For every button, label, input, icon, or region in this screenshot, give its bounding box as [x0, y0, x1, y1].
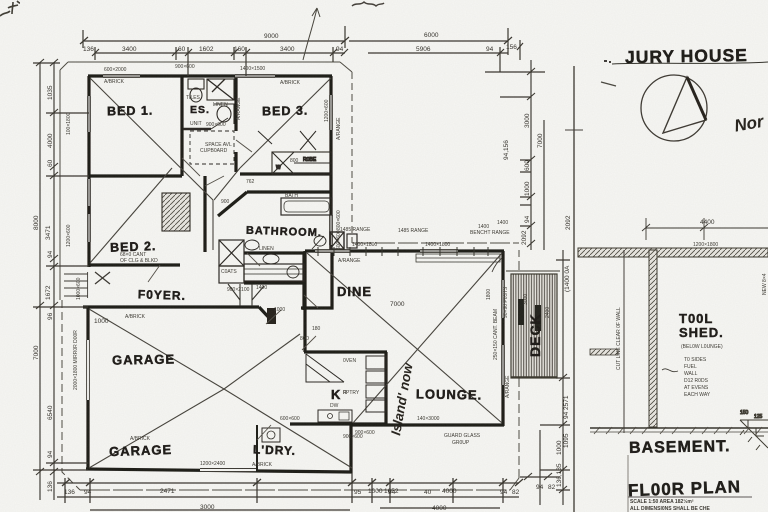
- wire: top exterior wall bedroom wing: [83, 76, 504, 473]
- deck hatched planks: [506, 271, 560, 378]
- wall: right exterior wall bedroom wing: [329, 76, 332, 250]
- fixture: kitchen pantry/oven stack: [366, 356, 386, 369]
- wall: laundry east: [349, 425, 352, 473]
- fixture: kitchen bench corner: [262, 354, 386, 442]
- wall: hall top / wardrobe top: [234, 152, 237, 172]
- small dash left of circle: [601, 82, 616, 86]
- wall: lounge bottom: [351, 423, 504, 426]
- dimension: 4400 over basement: [642, 218, 768, 240]
- wall: left exterior wall (BED1/BED2): [87, 76, 90, 267]
- fixture: laundry tub: [262, 428, 280, 442]
- stray script top-center (cursive north): [352, 2, 384, 6]
- deck posts: [518, 299, 524, 325]
- roof hip diagonals bedroom wing: [89, 78, 502, 468]
- door marks BED3: [258, 131, 316, 150]
- north symbol triangle: [663, 77, 706, 133]
- window breaks (thin wall sections): [87, 75, 505, 472]
- roof hip diagonals dine/lounge: [307, 253, 502, 423]
- basement wall window segment: [590, 349, 618, 355]
- wall: bathroom/hall south: [244, 251, 306, 254]
- dimension line: top 9000: [80, 26, 523, 76]
- door frame below coats: [228, 284, 264, 306]
- fixture: bathroom bath tub: [219, 198, 357, 283]
- wall: hall west: [203, 176, 206, 252]
- wall: bathroom top: [247, 190, 332, 193]
- stray script top-left: [0, 1, 20, 16]
- tool shed wall vertical hatched: [649, 250, 657, 427]
- dimension line: top second row: [95, 52, 345, 54]
- wall: dine top: [305, 249, 504, 252]
- wall: laundry west: [256, 425, 258, 471]
- dimension line: bottom: [57, 473, 523, 510]
- wall: bathroom chamfer: [218, 192, 247, 216]
- wall: ES south w/ door: [183, 128, 211, 131]
- dimension line: courtyard right vertical: [485, 60, 545, 250]
- wall: kitchen/laundry south: [290, 422, 387, 425]
- wall: wardrobe bottom BED3: [240, 172, 332, 175]
- wall: dine west: [303, 251, 306, 352]
- fixture: bathroom wc: [263, 254, 279, 264]
- fixture: wardrobe BED3: [272, 152, 332, 174]
- window ticks dine wall: [318, 247, 488, 256]
- wall: BED1/BED2 divider: [89, 174, 182, 177]
- dimension line: left outer vertical: [33, 59, 89, 500]
- wall: wc west: [302, 252, 305, 310]
- basement retaining wall hatched strip: [578, 248, 768, 258]
- fixture: ES toilet: [188, 79, 204, 89]
- fixture: dine north bench: [416, 254, 500, 262]
- fixture: wc pan near dine: [314, 236, 326, 246]
- fixture: bathroom vanity: [244, 264, 304, 281]
- wall: garage notch diagonal: [259, 307, 273, 322]
- fixture: closet with X (hall): [219, 240, 244, 266]
- step block foyer-dine: [267, 308, 276, 324]
- fixture: hall closet dashed: [190, 131, 234, 164]
- wall: ES/BED3 divider: [234, 76, 237, 131]
- wall: garage left: [86, 307, 89, 470]
- wall: lounge east: [501, 251, 504, 426]
- door swing: BED1: [148, 140, 318, 440]
- fixture: kitchen sink bench: [318, 410, 352, 422]
- fixture: coats closet: [219, 266, 244, 283]
- roof hip diagonals garage: [89, 309, 224, 389]
- wall: garage top: [83, 305, 259, 308]
- step detail right: [740, 410, 768, 450]
- fixture: ES shower closet: [162, 79, 234, 231]
- fixture: hall linen closet (hatched): [162, 193, 190, 231]
- north arrow sketch line: [303, 8, 317, 60]
- wall: bathroom south lower: [244, 281, 305, 284]
- wall: BED2 bottom: [89, 263, 180, 266]
- dimension line: deck right vertical: [520, 250, 570, 505]
- wall: foyer-dine opening south: [301, 250, 332, 308]
- door arc lounge slider: [492, 258, 502, 272]
- entry steps at foyer: [64, 272, 110, 296]
- basement floor line: [590, 427, 768, 429]
- wall: kitchen top: [304, 350, 387, 353]
- eaves outline: bedroom wing top: [60, 62, 519, 490]
- wall: garage/laundry bottom: [86, 469, 352, 472]
- wall: kitchen east: [384, 352, 387, 424]
- fixture: ES basin: [217, 106, 231, 122]
- section divider vertical line: [573, 66, 575, 512]
- wall: BED1/ES divider: [180, 76, 183, 176]
- tool shed cut line vertical: [623, 250, 625, 433]
- north symbol circle: [641, 75, 707, 141]
- dimension line: top 6000: [349, 40, 508, 42]
